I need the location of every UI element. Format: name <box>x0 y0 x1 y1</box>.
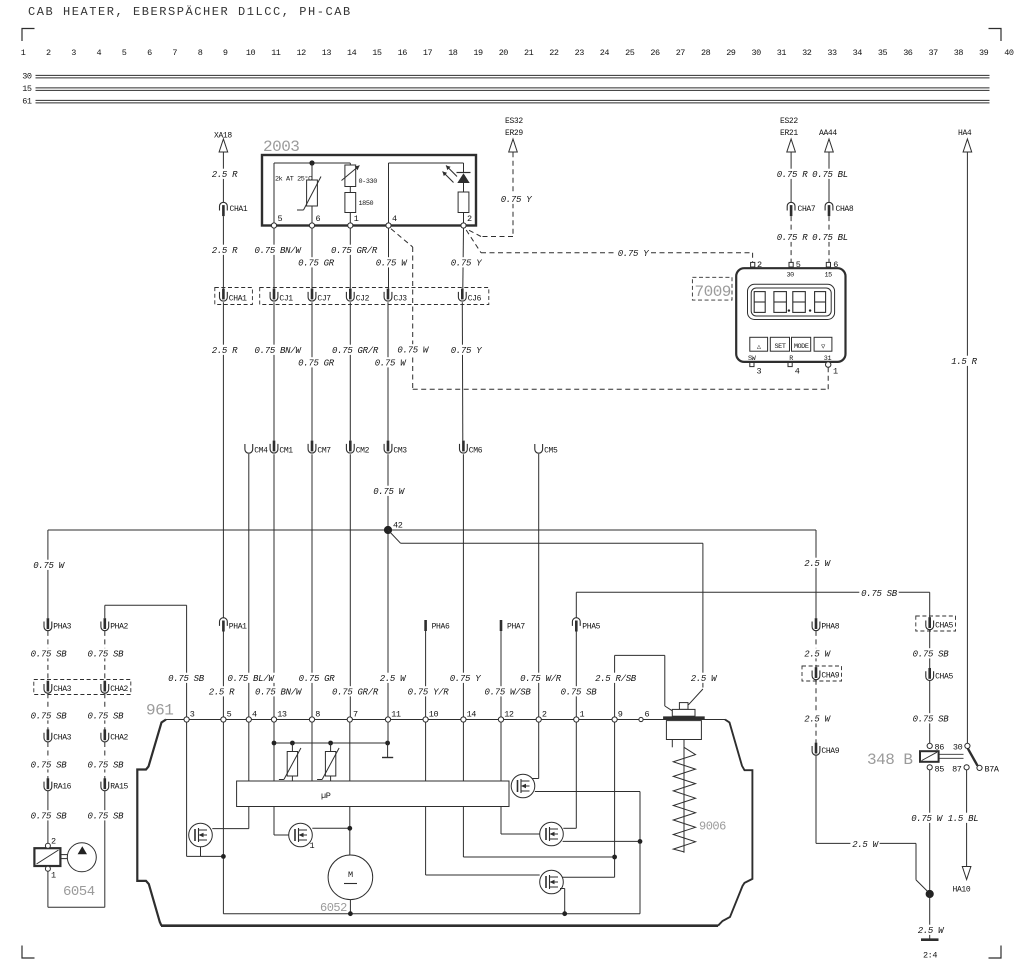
svg-text:CHA2: CHA2 <box>110 685 128 694</box>
relay pin B7A <box>977 764 1000 774</box>
svg-text:CHA7: CHA7 <box>798 205 816 214</box>
connector PHA3 <box>44 618 72 631</box>
svg-text:7009: 7009 <box>695 283 731 301</box>
dashed label box 7009 <box>692 277 732 301</box>
wire 0.75Y CJ6 to CM6 <box>461 302 464 440</box>
svg-text:2.5 R/SB: 2.5 R/SB <box>595 674 637 684</box>
connector CJ2 <box>346 289 369 304</box>
wire 0.75R dashed CHA7 to 7009 pin5 <box>790 216 792 262</box>
svg-text:R: R <box>789 355 793 363</box>
tag XA18 <box>214 132 232 141</box>
relay 348 B label <box>867 751 913 769</box>
svg-text:3: 3 <box>71 48 76 58</box>
transistor Q1 <box>189 823 213 847</box>
svg-text:0.75 Y: 0.75 Y <box>451 346 483 356</box>
svg-text:CM1: CM1 <box>279 446 293 455</box>
wire 0.75W/SB PHA7 to 961 pin12 <box>500 631 502 717</box>
svg-text:CJ7: CJ7 <box>317 295 331 304</box>
svg-text:9: 9 <box>618 710 623 720</box>
svg-text:CJ2: CJ2 <box>356 295 370 304</box>
svg-text:CJ6: CJ6 <box>468 295 482 304</box>
961 pin3 wire to source rail <box>187 722 224 856</box>
wire 0.75W dashed 2003 pin4 to 7009 pin1 <box>391 229 828 389</box>
svg-text:1: 1 <box>833 367 838 377</box>
svg-text:0.75 GR/R: 0.75 GR/R <box>331 246 378 256</box>
dashed box CJ connector group <box>260 288 489 305</box>
bus 61 <box>22 97 989 107</box>
wire 0.75W/R CM5 to 961 pin2 <box>538 454 540 717</box>
svg-text:2: 2 <box>467 214 472 224</box>
wire 0.75SB CHA2 to CHA2 lower dashed <box>104 693 106 730</box>
relay 348B coil <box>920 751 939 762</box>
label 6052 <box>320 901 347 915</box>
svg-text:0.75 GR/R: 0.75 GR/R <box>332 688 379 698</box>
svg-text:CHA5: CHA5 <box>935 672 953 681</box>
svg-text:0.75 W: 0.75 W <box>397 346 430 356</box>
connector CHA2 upper <box>101 681 129 694</box>
7009 pin 2 <box>751 260 762 270</box>
961 rail junctions <box>272 741 390 746</box>
svg-text:5: 5 <box>796 260 801 270</box>
connector CHA5 upper <box>926 617 954 630</box>
wire pin9 internal column <box>561 722 615 877</box>
transistor Q2 <box>289 823 315 851</box>
svg-text:37: 37 <box>928 48 938 58</box>
wire 2.5W node42 to PHA8 <box>815 530 817 618</box>
svg-text:12: 12 <box>504 710 514 720</box>
svg-text:0.75 SB: 0.75 SB <box>88 712 125 722</box>
svg-text:2.5 R: 2.5 R <box>212 346 238 356</box>
svg-text:2003: 2003 <box>263 138 299 156</box>
bus 30 <box>22 72 989 82</box>
svg-text:0.75 SB: 0.75 SB <box>913 715 950 725</box>
wire Q4 source to bottom rail <box>560 889 565 914</box>
wire uP to motor <box>349 807 351 856</box>
wire PHA2 feed from 961 pin3 <box>105 605 187 717</box>
svg-text:1: 1 <box>580 710 585 720</box>
transistor Q3 <box>540 822 564 846</box>
arrow HA10 <box>962 867 971 880</box>
arrow XA18 <box>219 139 228 152</box>
961 microprocessor box <box>237 781 509 807</box>
wire 0.75BL dashed CHA8 to 7009 pin6 <box>828 216 830 262</box>
wire 0.75GR 2003 pin6 to CJ7 <box>311 228 313 289</box>
svg-text:0.75 SB: 0.75 SB <box>861 589 898 599</box>
connector CHA9 upper <box>812 667 840 680</box>
svg-text:ES22: ES22 <box>780 117 798 126</box>
connector PHA2 <box>101 618 129 631</box>
wire 0.75SB PHA5 to 961 pin1 <box>575 632 577 718</box>
svg-text:ER21: ER21 <box>780 129 798 138</box>
wire uP to Q3 gate <box>501 807 540 835</box>
svg-text:0.75 GR: 0.75 GR <box>298 259 335 269</box>
connector CHA2 lower <box>101 729 129 742</box>
connector CHA5 lower <box>926 668 954 681</box>
tag AA44 <box>819 129 837 138</box>
svg-text:38: 38 <box>954 48 964 58</box>
relay pin 30 <box>953 742 970 752</box>
connector CM4 <box>245 444 268 455</box>
thermistor 2k AT 25C <box>275 163 321 226</box>
svg-text:1: 1 <box>310 841 315 851</box>
connector CM6 <box>459 441 482 456</box>
svg-text:CHA9: CHA9 <box>821 672 839 681</box>
961 pin 2 <box>536 710 547 723</box>
961 pin 12 <box>498 710 514 723</box>
961 thermistor A <box>279 743 301 781</box>
wire value labels <box>29 169 980 936</box>
svg-text:0.75 GR: 0.75 GR <box>299 674 336 684</box>
svg-text:B7A: B7A <box>985 764 1000 774</box>
svg-text:PHA5: PHA5 <box>582 623 600 632</box>
svg-text:2.5 W: 2.5 W <box>380 674 407 684</box>
wire 0.75SB to CHA5 upper <box>929 592 931 618</box>
tag HA4 <box>958 129 972 138</box>
961 pin 6 <box>639 710 650 722</box>
svg-text:30: 30 <box>22 72 32 82</box>
961 pin 5 <box>221 710 232 723</box>
svg-text:8: 8 <box>315 710 320 720</box>
svg-text:85: 85 <box>935 764 945 774</box>
svg-text:CHA1: CHA1 <box>230 205 248 214</box>
wire 0.75SB CHA5 to relay pin86 <box>929 681 931 744</box>
svg-text:14: 14 <box>467 710 477 720</box>
svg-text:14: 14 <box>347 48 357 58</box>
svg-text:61: 61 <box>22 97 32 107</box>
wire 0.75Y/R PHA6 to 961 pin10 <box>425 631 427 717</box>
svg-text:4: 4 <box>96 48 101 58</box>
svg-text:6: 6 <box>147 48 152 58</box>
svg-text:16: 16 <box>398 48 408 58</box>
bus 15 <box>22 84 989 94</box>
svg-text:0.75 BL: 0.75 BL <box>812 170 848 180</box>
wire 0.75Y dashed 2003 pin2 to 7009 pin2 <box>466 230 752 262</box>
svg-text:5: 5 <box>227 710 232 720</box>
svg-text:PHA8: PHA8 <box>821 623 839 632</box>
wire 0.75SB CHA3 to RA16 dashed <box>47 742 49 779</box>
svg-text:2.5 R: 2.5 R <box>209 688 235 698</box>
dashed box CHA5 <box>916 616 956 631</box>
connector PHA6 <box>426 620 450 632</box>
2003 pin 2 <box>461 214 472 228</box>
wire 0.75SB CHA5 to CHA5 lower <box>929 630 931 669</box>
dashed box CHA9 <box>802 666 842 681</box>
transistor Q4 <box>540 870 564 894</box>
glow plug 9006 coil spring <box>673 747 695 852</box>
connector CJ1 <box>270 289 293 304</box>
961 pin11 internal ground <box>382 722 393 757</box>
svg-text:MODE: MODE <box>794 343 809 351</box>
wire 2.5W CHA9 to ground junction <box>816 755 928 891</box>
7009 pin 6 label 15 <box>825 260 839 280</box>
svg-text:87: 87 <box>952 764 962 774</box>
motor 6052 <box>328 855 373 900</box>
fuel pump 6054 pump body <box>60 843 96 872</box>
svg-text:CHA5: CHA5 <box>935 622 953 631</box>
junction Q4 bottom rail <box>562 911 567 916</box>
wire 0.75W relay85 to ground junction <box>929 770 931 894</box>
wire Q1 source <box>200 847 202 857</box>
svg-text:1: 1 <box>21 48 26 58</box>
7009 pin 5 label 30 <box>787 260 801 280</box>
wire 0.75Y 2003 pin2 to CJ6 <box>462 228 465 289</box>
svg-text:0.75 Y: 0.75 Y <box>501 195 533 205</box>
svg-text:15: 15 <box>825 272 833 280</box>
connector CM5 <box>535 444 558 455</box>
svg-text:0.75 R: 0.75 R <box>777 170 809 180</box>
svg-text:0.75 W/R: 0.75 W/R <box>520 674 562 684</box>
svg-text:0-330: 0-330 <box>359 178 378 186</box>
tag ES22 ER21 <box>780 117 798 138</box>
svg-text:8: 8 <box>198 48 203 58</box>
dashed box connector CHA1 row <box>215 288 253 305</box>
svg-text:35: 35 <box>878 48 888 58</box>
wire 2.5W CHA9 to CHA9 lower dashed <box>815 680 817 743</box>
connector RA15 <box>101 778 129 791</box>
svg-text:10: 10 <box>246 48 256 58</box>
svg-text:42: 42 <box>393 521 403 531</box>
svg-text:20: 20 <box>499 48 509 58</box>
relay contact blade <box>968 748 978 765</box>
svg-text:30: 30 <box>751 48 761 58</box>
svg-text:3: 3 <box>190 710 195 720</box>
resistor 1850 <box>345 187 374 226</box>
junction pin9 column <box>612 855 617 860</box>
svg-text:CM3: CM3 <box>393 446 407 455</box>
7009 pin 3 label SW <box>748 355 762 377</box>
wire 0.75BN/W CJ1 to CM1 <box>273 302 275 440</box>
wire Q3 source to right column <box>563 840 640 842</box>
svg-text:0.75 R: 0.75 R <box>777 233 809 243</box>
svg-text:15: 15 <box>22 84 32 94</box>
wire 2.5W glowplug diagonal <box>688 689 703 705</box>
junction motor top <box>347 826 352 831</box>
svg-text:CHA1: CHA1 <box>229 295 247 304</box>
connector CJ7 <box>308 289 331 304</box>
junction right column <box>638 839 643 844</box>
7009 button MODE <box>792 337 811 351</box>
svg-text:µP: µP <box>321 791 331 801</box>
relay pin 86 <box>927 742 944 752</box>
svg-text:9006: 9006 <box>699 820 726 834</box>
svg-text:12: 12 <box>296 48 306 58</box>
svg-text:RA16: RA16 <box>53 783 71 792</box>
2003 pin 1 <box>348 214 359 228</box>
2003 node rail-left junction <box>309 160 314 165</box>
wire 0.75Y CM6 to 961 pin14 <box>462 454 464 717</box>
wire 0.75SB RA16 to pump 6054 <box>47 791 49 843</box>
wire motor bottom to rail <box>349 900 351 914</box>
connector PHA8 <box>812 618 840 631</box>
svg-text:13: 13 <box>277 710 287 720</box>
svg-text:0.75 W/SB: 0.75 W/SB <box>485 688 532 698</box>
wire 2.5W node42 to glow plug <box>388 530 703 688</box>
svg-text:28: 28 <box>701 48 711 58</box>
wire 0.75Y dashed ES32 to 2003 pin2 <box>466 152 513 236</box>
svg-text:2.5 W: 2.5 W <box>804 715 831 725</box>
svg-text:0.75 GR: 0.75 GR <box>298 359 335 369</box>
961 pin 8 <box>309 710 320 723</box>
2003 pin 4 <box>386 214 397 228</box>
svg-text:39: 39 <box>979 48 989 58</box>
svg-text:33: 33 <box>827 48 837 58</box>
wire 0.75BL/W CM4 to 961 pin4 <box>248 454 250 717</box>
961 pin 10 <box>423 710 439 723</box>
glow plug 9006 <box>663 703 705 853</box>
junction pin5 source rail <box>221 854 226 859</box>
wire 0.75BL AA44-CHA8 <box>828 152 830 202</box>
svg-text:1: 1 <box>354 214 359 224</box>
arrow ES32/ER29 <box>509 139 518 152</box>
svg-text:2k AT 25°C: 2k AT 25°C <box>275 175 312 184</box>
svg-text:CM4: CM4 <box>254 446 268 455</box>
wire 2.5R/SB 961 pin9 to glow plug <box>615 655 673 717</box>
svg-text:22: 22 <box>549 48 559 58</box>
2003 internal rail right <box>389 162 464 164</box>
wire 0.75W CJ3 to CM3 <box>387 302 389 440</box>
svg-text:0.75 SB: 0.75 SB <box>561 688 598 698</box>
svg-text:0.75 SB: 0.75 SB <box>88 650 125 660</box>
svg-text:31: 31 <box>824 355 832 363</box>
wire 0.75W node42 to PHA3 <box>47 530 49 618</box>
svg-text:CHA8: CHA8 <box>836 205 854 214</box>
svg-text:0.75 BN/W: 0.75 BN/W <box>255 688 303 698</box>
961 pin 1 <box>574 710 585 723</box>
svg-text:ES32: ES32 <box>505 117 523 126</box>
svg-text:0.75 BL: 0.75 BL <box>812 233 848 243</box>
svg-text:30: 30 <box>787 272 795 280</box>
connector CHA1 <box>220 202 248 216</box>
2003 pin4 riser <box>388 163 390 226</box>
961 pin4 feed <box>248 722 250 781</box>
svg-text:6: 6 <box>645 710 650 720</box>
961 bottom rail <box>223 913 640 915</box>
961 pin 4 <box>246 710 257 723</box>
svg-text:7: 7 <box>353 710 358 720</box>
wire pin2 to Q5 drain <box>529 722 539 778</box>
svg-text:29: 29 <box>726 48 736 58</box>
connector RA16 <box>44 778 72 791</box>
svg-text:4: 4 <box>795 367 800 377</box>
wire Q2 drain to motor column <box>312 827 350 829</box>
svg-text:2.5 W: 2.5 W <box>804 559 831 569</box>
svg-text:10: 10 <box>429 710 439 720</box>
svg-text:AA44: AA44 <box>819 129 837 138</box>
connector CHA1 row2 <box>220 289 248 304</box>
svg-text:6054: 6054 <box>63 884 95 900</box>
connector PHA1 <box>220 618 248 632</box>
timer unit 7009 box <box>736 268 845 362</box>
wire 0.75BN/W 2003 pin5 to CJ1 <box>273 228 275 289</box>
potentiometer 0-330 <box>342 163 378 187</box>
svg-text:2.5 W: 2.5 W <box>804 650 831 660</box>
svg-text:0.75 BL/W: 0.75 BL/W <box>228 674 276 684</box>
6054 pin 1 <box>45 866 56 880</box>
svg-text:CM2: CM2 <box>356 446 370 455</box>
2003 internal rail left <box>274 162 350 164</box>
connector CHA7 <box>787 202 816 216</box>
svg-text:0.75 SB: 0.75 SB <box>31 761 68 771</box>
svg-text:2: 2 <box>542 710 547 720</box>
961 pin 13 <box>271 710 287 723</box>
svg-text:0.75 Y: 0.75 Y <box>618 249 650 259</box>
svg-text:0.75 W: 0.75 W <box>375 359 408 369</box>
svg-text:7: 7 <box>172 48 177 58</box>
svg-text:1.5 BL: 1.5 BL <box>948 814 979 824</box>
svg-text:2: 2 <box>46 48 51 58</box>
961 pin 14 <box>461 710 477 723</box>
heater unit 961 outline <box>137 702 752 926</box>
svg-text:0.75 SB: 0.75 SB <box>31 650 68 660</box>
svg-text:CJ1: CJ1 <box>279 295 293 304</box>
svg-text:6: 6 <box>316 214 321 224</box>
2003 pin5 riser <box>273 163 275 226</box>
connector CM3 <box>384 441 407 456</box>
svg-text:CM7: CM7 <box>317 446 331 455</box>
svg-text:PHA2: PHA2 <box>110 623 128 632</box>
connector CHA3 upper <box>44 681 72 694</box>
961 thermistor B <box>317 743 339 781</box>
tag HA10 <box>953 886 971 895</box>
7009 seven-segment digits <box>754 292 825 313</box>
wire 2.5W node42 to 961 pin11 <box>387 530 389 717</box>
junction motor bottom <box>348 911 353 916</box>
ground junction node <box>926 890 934 898</box>
svg-text:11: 11 <box>391 710 401 720</box>
svg-text:5: 5 <box>278 214 283 224</box>
961 pin 3 <box>184 710 195 723</box>
wire uP pin14 stub to pin9 column <box>463 807 614 858</box>
connector PHA7 <box>501 620 525 632</box>
wire pin1 to Q3 drain <box>563 722 576 828</box>
relay pin 85 <box>927 764 944 774</box>
2003 pin 5 <box>271 214 282 228</box>
wire 0.75SB PHA3 to CHA3 dashed <box>47 631 49 681</box>
fuel pump 6054 solenoid <box>34 848 60 866</box>
wire 0.75GR CJ7 to CM7 <box>311 302 313 440</box>
svg-text:31: 31 <box>777 48 787 58</box>
svg-text:2: 2 <box>51 837 56 847</box>
connector CHA3 lower <box>44 729 72 742</box>
svg-text:CM6: CM6 <box>469 446 483 455</box>
svg-text:2:4: 2:4 <box>923 951 937 961</box>
wire 0.75SB RA15 to pump 6054 pin1 <box>48 791 105 907</box>
connector CM2 <box>346 441 369 456</box>
label 9006 <box>699 820 726 834</box>
connector CHA8 <box>825 202 854 216</box>
arrow HA4 <box>963 139 972 152</box>
svg-text:0.75 W: 0.75 W <box>33 561 66 571</box>
961 pin 9 <box>612 710 623 723</box>
svg-text:2.5 R: 2.5 R <box>212 170 238 180</box>
arrow AA44 <box>825 139 834 152</box>
svg-text:CHA3: CHA3 <box>53 685 71 694</box>
svg-text:1850: 1850 <box>359 200 374 208</box>
connector CJ3 <box>384 289 407 304</box>
LED with series resistor <box>443 163 471 226</box>
svg-text:0.75 SB: 0.75 SB <box>88 761 125 771</box>
svg-text:CHA3: CHA3 <box>53 734 71 743</box>
svg-text:0.75 BN/W: 0.75 BN/W <box>255 246 303 256</box>
svg-text:0.75 W: 0.75 W <box>376 259 409 269</box>
wire 2.5W junction to ground <box>929 894 931 939</box>
svg-text:2.5 W: 2.5 W <box>691 674 718 684</box>
svg-text:34: 34 <box>853 48 863 58</box>
svg-text:0.75 SB: 0.75 SB <box>31 812 68 822</box>
connector CJ6 <box>458 289 481 304</box>
svg-text:0.75 SB: 0.75 SB <box>88 812 125 822</box>
svg-text:24: 24 <box>600 48 610 58</box>
